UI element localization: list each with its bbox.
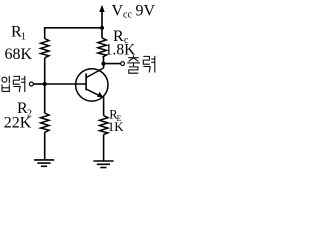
label R1 [11, 23, 26, 42]
svg-text:22K: 22K [4, 115, 32, 132]
resistor R1 [41, 28, 49, 84]
label Vcc 9V [112, 2, 156, 20]
label RE [109, 108, 121, 124]
label R2 [17, 100, 32, 119]
wire output [104, 63, 121, 65]
input terminal [29, 82, 33, 86]
resistor RE [100, 96, 108, 161]
svg-text:V: V [112, 2, 124, 19]
label input 입력 [2, 76, 25, 92]
wire base [45, 83, 86, 85]
resistor Rc [98, 28, 106, 64]
wire top bus [45, 28, 102, 32]
resistor R2 [41, 84, 49, 160]
svg-text:68K: 68K [5, 46, 33, 63]
svg-text:1: 1 [21, 31, 26, 42]
ground left [34, 160, 54, 166]
label Rc [113, 28, 129, 46]
transistor Q1 [76, 64, 108, 102]
output terminal [121, 62, 125, 66]
Vcc supply arrow [99, 5, 104, 28]
svg-text:1.8K: 1.8K [105, 42, 136, 59]
svg-text:cc: cc [123, 10, 132, 21]
node top junction [100, 26, 104, 30]
wire input [34, 83, 45, 85]
svg-text:9V: 9V [136, 2, 156, 19]
node output junction [101, 62, 105, 66]
node input junction [43, 82, 47, 86]
ground right [93, 161, 113, 168]
label output 출력 [127, 55, 155, 73]
svg-text:1K: 1K [108, 119, 125, 134]
